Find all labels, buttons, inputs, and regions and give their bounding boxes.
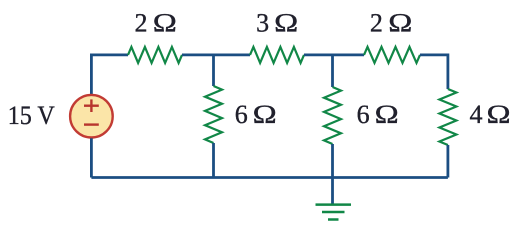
label R5 6ohm — [357, 100, 399, 129]
svg-text:15 V: 15 V — [8, 101, 55, 130]
ground — [316, 205, 352, 220]
svg-text:Ω: Ω — [487, 100, 511, 129]
label R2 3ohm — [256, 9, 298, 38]
resistor R4 6ohm — [205, 86, 222, 143]
label R3 2ohm — [370, 9, 413, 38]
label VS 15V — [8, 101, 55, 130]
svg-text:2: 2 — [370, 9, 383, 38]
svg-text:2: 2 — [135, 9, 148, 38]
svg-text:Ω: Ω — [375, 100, 399, 129]
svg-text:Ω: Ω — [388, 9, 412, 38]
resistor R1 2ohm — [128, 47, 182, 63]
svg-text:6: 6 — [357, 100, 370, 129]
svg-text:3: 3 — [256, 9, 269, 38]
label R4 6ohm — [235, 100, 277, 129]
label R1 2ohm — [135, 9, 177, 38]
wire R6 to bottom — [446, 145, 449, 178]
wire bottom — [91, 176, 448, 179]
wire left below source — [90, 138, 93, 177]
wire top left (source to R1) — [91, 55, 128, 94]
wire ground stub — [331, 178, 334, 205]
svg-text:Ω: Ω — [253, 100, 277, 129]
wire node A stub (top wire to R4) — [212, 55, 215, 86]
resistor R3 2ohm — [364, 47, 420, 63]
wire top right corner down — [420, 55, 448, 89]
svg-text:Ω: Ω — [153, 9, 177, 38]
label R6 4ohm — [470, 100, 511, 129]
resistor R2 3ohm — [250, 47, 304, 63]
wire R4 to bottom — [212, 143, 215, 178]
voltage source VS 15V — [70, 95, 113, 138]
resistor R6 4ohm — [439, 89, 456, 145]
resistor R5 6ohm — [324, 87, 341, 144]
svg-text:Ω: Ω — [274, 9, 298, 38]
svg-text:6: 6 — [235, 100, 248, 129]
svg-text:4: 4 — [470, 100, 483, 129]
wire top between R2 and R3 — [304, 54, 364, 57]
wire top between R1 and R2 — [182, 54, 250, 57]
wire R5 to bottom — [331, 144, 334, 178]
wire node B stub (top wire to R5) — [331, 55, 334, 87]
